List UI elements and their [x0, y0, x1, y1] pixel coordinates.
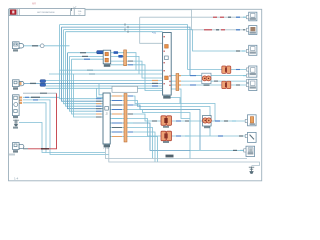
svg-text:ANTIDEMARRAGE: ANTIDEMARRAGE — [37, 11, 55, 14]
svg-text:1-4: 1-4 — [14, 177, 19, 181]
svg-text:MR: MR — [32, 1, 36, 5]
svg-text:777B: 777B — [103, 147, 109, 150]
